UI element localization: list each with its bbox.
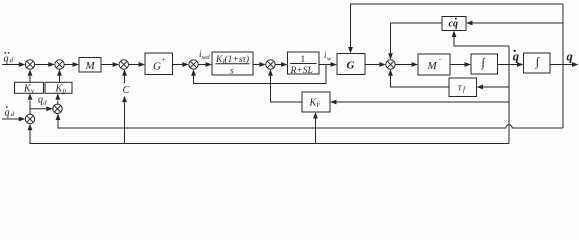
summing junction S1 — [25, 60, 34, 69]
wire I2 to output q — [550, 62, 579, 67]
svg-text:q: q — [5, 108, 10, 119]
block KI current regulator K_I(1+s tau)/s — [212, 52, 253, 77]
svg-text:q: q — [513, 49, 519, 63]
wire qdot tap to KF right input — [330, 100, 509, 105]
block M — [79, 58, 101, 73]
block Gplus — [145, 53, 173, 75]
wire C signal from velocity feedback up to S3 — [122, 69, 127, 143]
svg-text:q: q — [567, 49, 573, 63]
svg-text:wd: wd — [202, 54, 210, 61]
node iwd label — [199, 49, 210, 61]
summing junction S5 — [266, 60, 275, 69]
summing junction S7 — [25, 114, 34, 123]
svg-text:p: p — [62, 87, 67, 95]
block Minv — [418, 54, 450, 75]
svg-text:M: M — [427, 60, 438, 72]
wire cqdot output to S6 top — [388, 23, 442, 60]
node qdot label — [513, 49, 519, 63]
summing junction S3 — [119, 60, 128, 69]
integrator I2 — [524, 53, 551, 73]
block RL electrical 1/(R+SL) — [288, 52, 320, 76]
block tau_f friction — [449, 78, 477, 97]
svg-text:τ: τ — [458, 83, 462, 94]
wire RL to block G with label iw — [319, 62, 337, 67]
wire S3 to block Gplus — [129, 62, 146, 67]
block G — [337, 54, 365, 75]
wire Gplus to S4 with label iwd — [173, 62, 189, 67]
wire KI to S5 — [253, 62, 266, 67]
wire G to S6 — [365, 62, 386, 67]
svg-text:∫: ∫ — [481, 55, 486, 69]
wire velocity feedback up to KF bottom — [313, 112, 318, 144]
wire tau_f output to S6 bottom — [388, 69, 449, 87]
svg-text:C: C — [123, 85, 130, 96]
wire S2 to block M — [64, 62, 79, 67]
wire q outer feedback to G top — [348, 4, 563, 54]
wire qdotd to S7 — [2, 117, 25, 122]
wire qdot tap vertical — [508, 46, 510, 144]
svg-text:(1+sτ): (1+sτ) — [225, 54, 250, 65]
wire position feedback q to S8 with hop — [56, 114, 563, 129]
wire qdot tap to cqdot bottom input — [452, 31, 509, 47]
node iw label — [324, 50, 332, 62]
svg-text:F: F — [317, 102, 321, 109]
wire KF output to S5 bottom — [268, 69, 302, 102]
block Kv — [15, 82, 44, 95]
wire S5 to block RL — [275, 62, 287, 67]
wire S1 to S2 — [35, 62, 55, 67]
svg-text:cq: cq — [449, 19, 458, 30]
wire S4 to block KI — [198, 62, 212, 67]
summing junction S2 — [55, 60, 64, 69]
integrator I1 — [471, 54, 498, 74]
svg-text:s: s — [230, 67, 234, 77]
svg-text:+: + — [161, 56, 165, 64]
wire Kv to S1 bottom — [28, 69, 33, 82]
svg-text:R+SL: R+SL — [290, 66, 313, 76]
node q output label — [567, 49, 573, 63]
block Kp — [45, 82, 72, 95]
wire velocity feedback qdot to S7 — [28, 124, 509, 144]
wire I1 to I2 with qdot node — [498, 62, 524, 67]
wire branch qd to S8 — [30, 106, 53, 111]
svg-text:∫: ∫ — [535, 54, 540, 68]
svg-text:w: w — [327, 55, 332, 62]
wire qdot tap to tau_f right input — [477, 85, 510, 90]
summing junction S8 — [53, 104, 62, 113]
block cqdot — [442, 17, 466, 31]
block KF — [302, 92, 330, 112]
wire S6 to block Minv — [395, 62, 418, 67]
node C label — [123, 85, 130, 96]
wire S7 up to Kv bottom with branch to S8 — [28, 93, 33, 114]
wire M to S3 — [101, 62, 119, 67]
summing junction S6 — [386, 60, 395, 69]
svg-text:q: q — [4, 54, 9, 65]
svg-text:G: G — [153, 61, 161, 73]
node qd label — [38, 95, 47, 107]
node qdd input label — [4, 52, 14, 64]
wire Minv to integrator I1 — [450, 62, 471, 67]
svg-text:1: 1 — [301, 55, 306, 65]
wire S8 up to Kp bottom — [55, 93, 60, 104]
node qdotd input label — [5, 106, 15, 118]
svg-text:G: G — [347, 60, 355, 72]
summing junction S4 — [189, 60, 198, 69]
wire current loop feedback iw tap to S4 bottom — [191, 65, 326, 84]
wire qdd to S1 — [2, 62, 25, 67]
wire q tap to cqdot right input — [466, 21, 563, 26]
svg-text:M: M — [85, 60, 96, 72]
wire q tap vertical — [562, 4, 564, 128]
wire Kp to S2 bottom — [57, 69, 62, 82]
svg-text:−: − — [438, 56, 442, 64]
